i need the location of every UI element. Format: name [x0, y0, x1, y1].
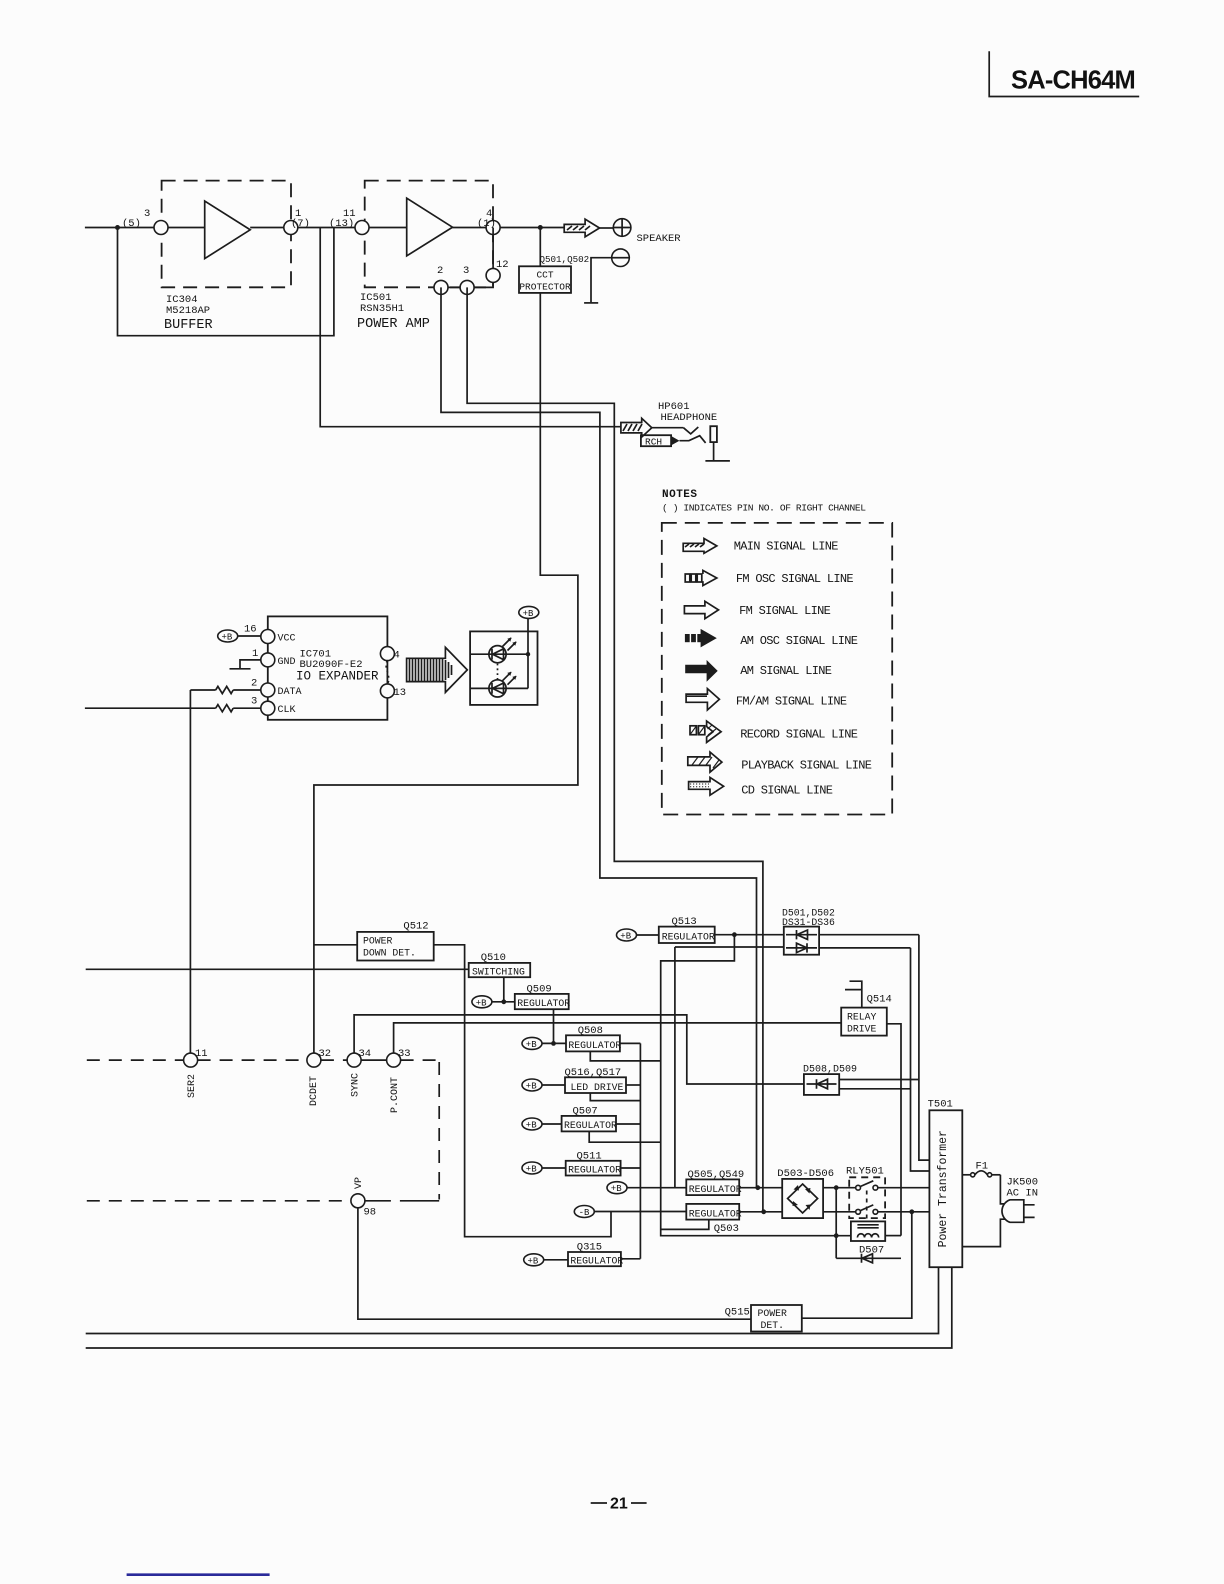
component Q515 POWER DET box — [751, 1305, 802, 1332]
wire Q507 output — [616, 1123, 640, 1125]
wire arrow to speaker — [600, 227, 614, 229]
wire D507 branch vertical — [835, 1188, 837, 1259]
relay RLY501 dashed box — [849, 1177, 885, 1218]
playback arrow headphone — [621, 418, 652, 437]
pin 4 IC501 — [486, 221, 500, 235]
svg-text:VP: VP — [354, 1177, 365, 1189]
svg-text:NOTES: NOTES — [662, 489, 698, 501]
headphone jack sleeve — [710, 426, 717, 442]
pin 16 VCC — [261, 630, 275, 644]
wire -B to Q503 — [594, 1211, 686, 1213]
label IC501 POWER AMP — [357, 292, 430, 332]
wire Q515 to relay row2 — [802, 1212, 912, 1318]
wire dashed VP row — [87, 1200, 351, 1202]
relay coil box — [851, 1221, 885, 1241]
svg-text:IO EXPANDER: IO EXPANDER — [296, 670, 379, 684]
svg-text:F1: F1 — [976, 1161, 989, 1173]
ground headphone — [705, 460, 730, 462]
ic block IC701 — [268, 616, 388, 719]
node Q515 tap — [909, 1209, 914, 1214]
pin 12 IC501 — [486, 268, 500, 282]
page number — [591, 1502, 647, 1504]
power +B LED DRIVE — [522, 1079, 542, 1091]
footer blue mark — [127, 1573, 270, 1576]
wire SYNC line to D508 — [354, 1015, 804, 1084]
svg-text:REGULATOR: REGULATOR — [564, 1120, 617, 1131]
svg-text:21: 21 — [610, 1496, 628, 1513]
svg-text:REGULATOR: REGULATOR — [568, 1040, 621, 1051]
svg-text:32: 32 — [319, 1048, 332, 1060]
wire PCONT line to relay drive — [394, 1023, 842, 1053]
wire VP drop to power det line — [358, 1208, 751, 1319]
wire headphone line from main tap — [320, 228, 621, 427]
svg-text:+B: +B — [526, 1040, 537, 1050]
svg-text:M5218AP: M5218AP — [166, 305, 210, 317]
svg-text:REGULATOR: REGULATOR — [689, 1208, 742, 1219]
fuse F1 — [962, 1171, 1000, 1177]
op-amp triangle IC501 — [407, 198, 453, 256]
wire CCT protector chain to DCDET — [314, 228, 578, 1054]
component Q511 REGULATOR box — [566, 1161, 621, 1176]
relay actuator dashed link — [866, 1191, 868, 1222]
diode D501 top — [786, 930, 817, 939]
wire relay drive output bus — [887, 1024, 901, 1236]
component Q514 RELAY DRIVE box — [841, 1008, 887, 1036]
component Q509 REGULATOR box — [515, 994, 569, 1009]
svg-text:(13): (13) — [329, 218, 354, 230]
bridge diamond — [788, 1184, 818, 1213]
relay coil core lines — [857, 1225, 878, 1228]
svg-text:SPEAKER: SPEAKER — [637, 233, 682, 245]
bus arrow IO expander to LEDs — [407, 647, 468, 692]
svg-text:REGULATOR: REGULATOR — [517, 998, 570, 1009]
pin 3 IC304 — [154, 221, 168, 235]
svg-text:Q511: Q511 — [577, 1150, 602, 1162]
dotted link LEDs — [497, 664, 499, 680]
pin 13 IC701 right — [380, 684, 394, 698]
svg-text:DATA: DATA — [278, 687, 302, 698]
svg-text:REGULATOR: REGULATOR — [662, 932, 715, 943]
power +B Q509 — [472, 996, 492, 1008]
svg-text:SYNC: SYNC — [351, 1073, 362, 1097]
legend arrow FM — [684, 601, 718, 618]
arrow hatch — [623, 424, 642, 431]
wire main signal line — [85, 227, 564, 229]
bridge rectifier D503-D506 box — [782, 1179, 823, 1218]
svg-text:DOWN DET.: DOWN DET. — [363, 948, 416, 959]
pin 1 IC304 — [284, 221, 298, 235]
node VP pin 98 — [351, 1194, 365, 1208]
svg-text:DS31-DS36: DS31-DS36 — [782, 917, 835, 928]
svg-text:RELAY: RELAY — [847, 1012, 877, 1023]
svg-text:GND: GND — [278, 657, 296, 668]
svg-text:REGULATOR: REGULATOR — [689, 1184, 742, 1195]
wire relay row1 to transformer — [878, 1187, 930, 1189]
transformer T501 box — [929, 1110, 962, 1267]
component Q516,Q517 LED DRIVE box — [565, 1077, 626, 1093]
wire LED DRIVE output — [626, 1084, 640, 1086]
svg-text:-B: -B — [579, 1208, 590, 1218]
svg-text:( ) INDICATES PIN NO. OF RIGHT: ( ) INDICATES PIN NO. OF RIGHT CHANNEL — [662, 503, 866, 514]
node LED1 junction — [526, 652, 530, 656]
wire D508 outputs to buses — [839, 1080, 919, 1089]
wire D501 outputs — [819, 935, 919, 948]
wire DATA to SER2 — [189, 690, 191, 1053]
LED D2 — [489, 672, 517, 697]
svg-text:DRIVE: DRIVE — [847, 1024, 877, 1035]
legend arrow FM OSC — [685, 570, 717, 585]
bus regulator outputs — [639, 1043, 641, 1258]
component Q513 REGULATOR box — [659, 927, 715, 943]
wire Q503 bottom to rail — [661, 1220, 709, 1230]
wire left channel rail from pin2 — [441, 287, 757, 1187]
wire Q315 output — [621, 1258, 641, 1260]
svg-text:RECORD SIGNAL LINE: RECORD SIGNAL LINE — [740, 728, 858, 742]
wire GND to ground — [240, 660, 261, 668]
pin labels 12 2 3 — [437, 259, 509, 277]
label POWER DOWN DET — [363, 936, 416, 959]
wire Q513 output to D501 — [715, 934, 784, 936]
svg-text:DCDET: DCDET — [309, 1076, 320, 1106]
diode D502 bottom — [786, 943, 817, 952]
pin labels IC501 — [329, 208, 496, 230]
wire Q511 output — [621, 1167, 641, 1169]
node SER2 pin 11 — [184, 1053, 198, 1067]
svg-text:HEADPHONE: HEADPHONE — [661, 412, 718, 424]
node D507 branch — [834, 1185, 839, 1190]
svg-text:+B: +B — [476, 998, 487, 1008]
pin 3 lower IC501 — [460, 280, 474, 294]
svg-text:Q508: Q508 — [578, 1025, 603, 1037]
power +B Q505 — [607, 1182, 627, 1194]
power +B Q508 — [522, 1037, 542, 1049]
pin labels IC304 — [122, 208, 310, 230]
component D501,D502 DS31-DS36 box — [784, 927, 819, 955]
wire +B to Q508 — [542, 1042, 566, 1044]
wire +B to Q507 — [542, 1123, 562, 1125]
wire bridge to relay row2 — [823, 1211, 856, 1213]
label HP601 HEADPHONE — [658, 401, 717, 424]
svg-text:POWER AMP: POWER AMP — [357, 317, 430, 332]
wire Q508 output to bus — [620, 1042, 641, 1044]
RCH flag box — [641, 435, 671, 446]
wire Q508 bottom to rail — [590, 1051, 660, 1061]
arrow hatch — [567, 226, 590, 230]
svg-text:Q512: Q512 — [403, 921, 428, 933]
wire transformer secondary 2 — [86, 1267, 952, 1348]
wire dashed PCONT corner — [401, 1060, 440, 1199]
svg-text:BUFFER: BUFFER — [164, 318, 213, 333]
page header rule — [989, 51, 1139, 96]
RCH flag arrowhead — [671, 436, 679, 445]
wire +B into LED box — [527, 618, 529, 654]
legend arrow CD — [689, 777, 724, 795]
wire +B to Q315 — [544, 1259, 568, 1261]
wire dashed connector row — [87, 1059, 347, 1061]
svg-text:+B: +B — [523, 609, 534, 619]
legend box dashed — [662, 523, 892, 815]
svg-text:+B: +B — [222, 633, 233, 643]
wire bridge to relay row1 — [823, 1187, 856, 1189]
LED D1 — [489, 638, 517, 663]
svg-text:3: 3 — [144, 208, 150, 220]
wire relay row2 to transformer — [878, 1211, 930, 1213]
power +B Q315 — [524, 1254, 544, 1266]
wire DCDET to Q512 — [314, 944, 357, 946]
svg-text:SA-CH64M: SA-CH64M — [1011, 67, 1135, 95]
pin 1 GND — [261, 653, 275, 667]
speaker minus terminal — [612, 249, 630, 267]
wire VP to dashed corner — [365, 1200, 439, 1202]
svg-text:RSN35H1: RSN35H1 — [360, 303, 404, 315]
diode D508 — [807, 1079, 837, 1089]
pin 2 DATA — [261, 683, 275, 697]
svg-text:Q505,Q549: Q505,Q549 — [688, 1169, 745, 1181]
power +B Q513 — [617, 929, 637, 941]
op-amp triangle IC304 — [205, 201, 251, 259]
svg-text:Q501,Q502: Q501,Q502 — [540, 254, 590, 265]
svg-text:Q514: Q514 — [867, 994, 892, 1006]
svg-text:PROTECTOR: PROTECTOR — [519, 282, 571, 293]
power +B Q511 — [522, 1162, 542, 1174]
wire rail to Q505 row — [674, 947, 676, 1188]
node SYNC pin 34 — [347, 1053, 361, 1067]
rotated net labels — [187, 1073, 401, 1189]
label IC304 BUFFER — [164, 294, 213, 333]
svg-text:13: 13 — [394, 687, 407, 699]
component Q508 REGULATOR box — [566, 1035, 620, 1051]
svg-text:POWER: POWER — [363, 936, 393, 947]
legend arrow main signal — [683, 539, 717, 554]
component Q512 POWER DOWN DET box — [357, 932, 434, 961]
svg-text:REGULATOR: REGULATOR — [570, 1256, 623, 1267]
wire fuse to plug — [1000, 1175, 1004, 1204]
wire transformer secondary 1 — [86, 1267, 939, 1333]
node junction Q510-Q509 — [501, 999, 506, 1004]
svg-text:D508,D509: D508,D509 — [803, 1065, 857, 1076]
wire Q510 to Q509 line — [503, 977, 505, 1002]
wire +B to VCC — [238, 635, 261, 637]
wire LED link vertical — [527, 654, 529, 688]
svg-text:Q515: Q515 — [725, 1307, 750, 1319]
svg-text:AM SIGNAL LINE: AM SIGNAL LINE — [740, 664, 832, 678]
wire +B to Q511 — [542, 1167, 566, 1169]
svg-text:16: 16 — [244, 624, 257, 636]
component CCT PROTECTOR box — [519, 266, 571, 293]
svg-text:12: 12 — [496, 259, 509, 271]
label D501,D502 DS31-DS36 — [782, 908, 835, 929]
svg-text:+B: +B — [526, 1121, 537, 1131]
relay coil — [857, 1234, 878, 1238]
svg-text:2: 2 — [251, 678, 257, 690]
svg-text:POWER: POWER — [758, 1308, 788, 1319]
label RELAY DRIVE — [847, 1012, 877, 1035]
svg-text:CLK: CLK — [278, 705, 296, 716]
label IC701 IO EXPANDER — [296, 649, 379, 684]
svg-text:SWITCHING: SWITCHING — [472, 966, 525, 977]
wire feedback loop IC304 — [118, 228, 334, 336]
pin number labels row — [195, 1048, 411, 1219]
dotted link pins 4-13 — [386, 661, 389, 684]
svg-text:3: 3 — [463, 265, 469, 277]
wire pin4 to pins 12,3,2 — [441, 228, 493, 288]
svg-text:FM OSC SIGNAL LINE: FM OSC SIGNAL LINE — [736, 572, 854, 586]
wire jack to ground — [713, 442, 715, 461]
svg-text:34: 34 — [359, 1048, 372, 1060]
svg-text:VCC: VCC — [278, 634, 296, 645]
bus right vertical 1 to transformer — [919, 935, 930, 1160]
svg-text:FM/AM SIGNAL LINE: FM/AM SIGNAL LINE — [736, 694, 847, 708]
component Q505,Q549 REGULATOR box — [686, 1179, 739, 1195]
wire right channel rail from pin3 — [467, 287, 763, 1211]
svg-text:33: 33 — [398, 1048, 411, 1060]
power +B VCC — [218, 630, 238, 642]
node coil rail junction — [834, 1233, 839, 1238]
svg-text:Q516,Q517: Q516,Q517 — [565, 1067, 622, 1079]
svg-text:+B: +B — [620, 932, 631, 942]
svg-text:Q315: Q315 — [577, 1242, 602, 1254]
headphone jack upper contact — [683, 427, 698, 434]
pin name labels IC701 — [278, 634, 302, 717]
pin number labels IC701 — [244, 624, 258, 708]
AC plug JK500 — [1002, 1200, 1024, 1223]
svg-text:98: 98 — [364, 1207, 377, 1219]
pin 3 CLK — [261, 701, 275, 715]
svg-text:Q513: Q513 — [672, 916, 697, 928]
legend arrow AM OSC — [685, 629, 717, 648]
svg-text:11: 11 — [195, 1048, 208, 1060]
pin labels 4 13 — [394, 650, 407, 700]
svg-text:+B: +B — [526, 1082, 537, 1092]
component Q315 REGULATOR box — [568, 1252, 621, 1266]
node PCONT pin 33 — [387, 1053, 401, 1067]
svg-text:P.CONT: P.CONT — [390, 1077, 401, 1113]
svg-text:AC IN: AC IN — [1007, 1188, 1039, 1200]
component D508,D509 box — [804, 1074, 839, 1095]
svg-text:LED DRIVE: LED DRIVE — [571, 1082, 624, 1093]
svg-text:CD SIGNAL LINE: CD SIGNAL LINE — [741, 783, 833, 797]
wire LED DRIVE bottom — [590, 1093, 640, 1101]
ic block IC501 dashed — [365, 181, 493, 288]
wire Q513 branch rail — [661, 935, 851, 1236]
svg-text:+B: +B — [611, 1184, 622, 1194]
wire Q503 output to bridge — [739, 1211, 782, 1213]
wire minus to ground — [591, 258, 612, 303]
relay contact 1 — [856, 1181, 878, 1190]
svg-text:REGULATOR: REGULATOR — [568, 1165, 621, 1176]
ground IC701 — [230, 668, 251, 670]
svg-text:Power Transformer: Power Transformer — [937, 1130, 950, 1247]
wire switching long line — [86, 968, 469, 970]
wire plug return to transformer — [962, 1219, 1005, 1246]
svg-text:1: 1 — [252, 648, 258, 660]
power +B LED — [519, 606, 539, 618]
svg-text:(7): (7) — [291, 218, 310, 230]
svg-text:D503-D506: D503-D506 — [777, 1168, 834, 1180]
svg-text:AM OSC SIGNAL LINE: AM OSC SIGNAL LINE — [740, 634, 858, 648]
resistor CLK — [216, 705, 233, 712]
node input junction — [115, 225, 120, 230]
svg-text:Q509: Q509 — [527, 983, 552, 995]
wire arrow to jack — [652, 427, 684, 429]
power -B Q503 — [574, 1206, 594, 1218]
ic block IC304 dashed — [162, 181, 291, 288]
wire Q509 to Q508 line — [553, 1009, 555, 1043]
pin 4 IC701 right — [380, 647, 394, 661]
wire LED2 row — [470, 687, 528, 689]
legend arrow AM — [685, 660, 718, 682]
svg-text:4: 4 — [394, 650, 400, 662]
label CCT PROTECTOR — [519, 270, 571, 293]
wire coil to relay drive bus — [885, 1235, 901, 1237]
svg-text:+B: +B — [528, 1256, 539, 1266]
svg-text:+B: +B — [526, 1165, 537, 1175]
svg-text:2: 2 — [437, 265, 443, 277]
node rail end Q505 — [755, 1185, 760, 1190]
plug prongs — [1024, 1205, 1035, 1218]
diode D507 — [836, 1254, 901, 1263]
wire +B to LED DRIVE — [542, 1084, 565, 1086]
headphone jack lower contact — [680, 436, 706, 443]
svg-text:D507: D507 — [859, 1245, 884, 1257]
svg-text:RLY501: RLY501 — [846, 1166, 884, 1178]
legend arrow PLAYBACK — [688, 752, 722, 772]
node DCDET pin 32 — [307, 1053, 321, 1067]
wire LED1 row — [470, 653, 528, 655]
legend arrow FM/AM — [686, 689, 719, 710]
component Q510 SWITCHING box — [469, 963, 531, 977]
svg-text:RCH: RCH — [645, 437, 662, 448]
relay contact 2 — [856, 1205, 878, 1214]
wire CLK line with resistor — [85, 707, 261, 709]
ground speaker — [584, 302, 598, 304]
LED indicator box — [470, 631, 537, 705]
svg-text:SER2: SER2 — [187, 1074, 198, 1098]
wire +B to Q509 — [492, 1001, 515, 1003]
svg-text:DET.: DET. — [761, 1320, 785, 1331]
node Q513 branch — [732, 932, 737, 937]
component Q503 REGULATOR box — [686, 1204, 739, 1220]
svg-text:MAIN SIGNAL LINE: MAIN SIGNAL LINE — [734, 540, 839, 554]
pin 2 lower IC501 — [434, 280, 448, 294]
wire Q512 output to -B loop — [434, 945, 611, 1237]
wire SYNC to PCONT — [361, 1059, 387, 1061]
svg-text:FM SIGNAL LINE: FM SIGNAL LINE — [739, 604, 831, 618]
wire Q507 bottom to rail — [589, 1131, 661, 1142]
antenna symbol Q514 — [845, 981, 862, 1007]
pin 11 IC501 — [355, 221, 369, 235]
svg-text:T501: T501 — [928, 1099, 953, 1111]
svg-text:(5): (5) — [122, 218, 141, 230]
legend arrow RECORD — [690, 721, 721, 742]
svg-text:3: 3 — [251, 696, 257, 708]
svg-text:Q510: Q510 — [481, 952, 506, 964]
main signal arrow to speaker — [564, 219, 599, 237]
node rail end Q503 — [761, 1209, 766, 1214]
svg-text:CCT: CCT — [536, 270, 553, 281]
svg-text:Q503: Q503 — [714, 1223, 739, 1235]
wire Q505 output to bridge — [739, 1187, 782, 1189]
label POWER DET — [758, 1308, 788, 1331]
wire diode lower row — [675, 946, 784, 948]
wire DATA line with resistor — [190, 689, 260, 691]
svg-text:PLAYBACK SIGNAL LINE: PLAYBACK SIGNAL LINE — [741, 759, 872, 773]
wire +B to Q505 — [627, 1187, 686, 1189]
wire +B to Q513 — [637, 934, 659, 936]
resistor DATA — [216, 686, 233, 693]
label JK500 AC IN — [1007, 1177, 1039, 1200]
node junction Q509-Q508 — [551, 1041, 556, 1046]
